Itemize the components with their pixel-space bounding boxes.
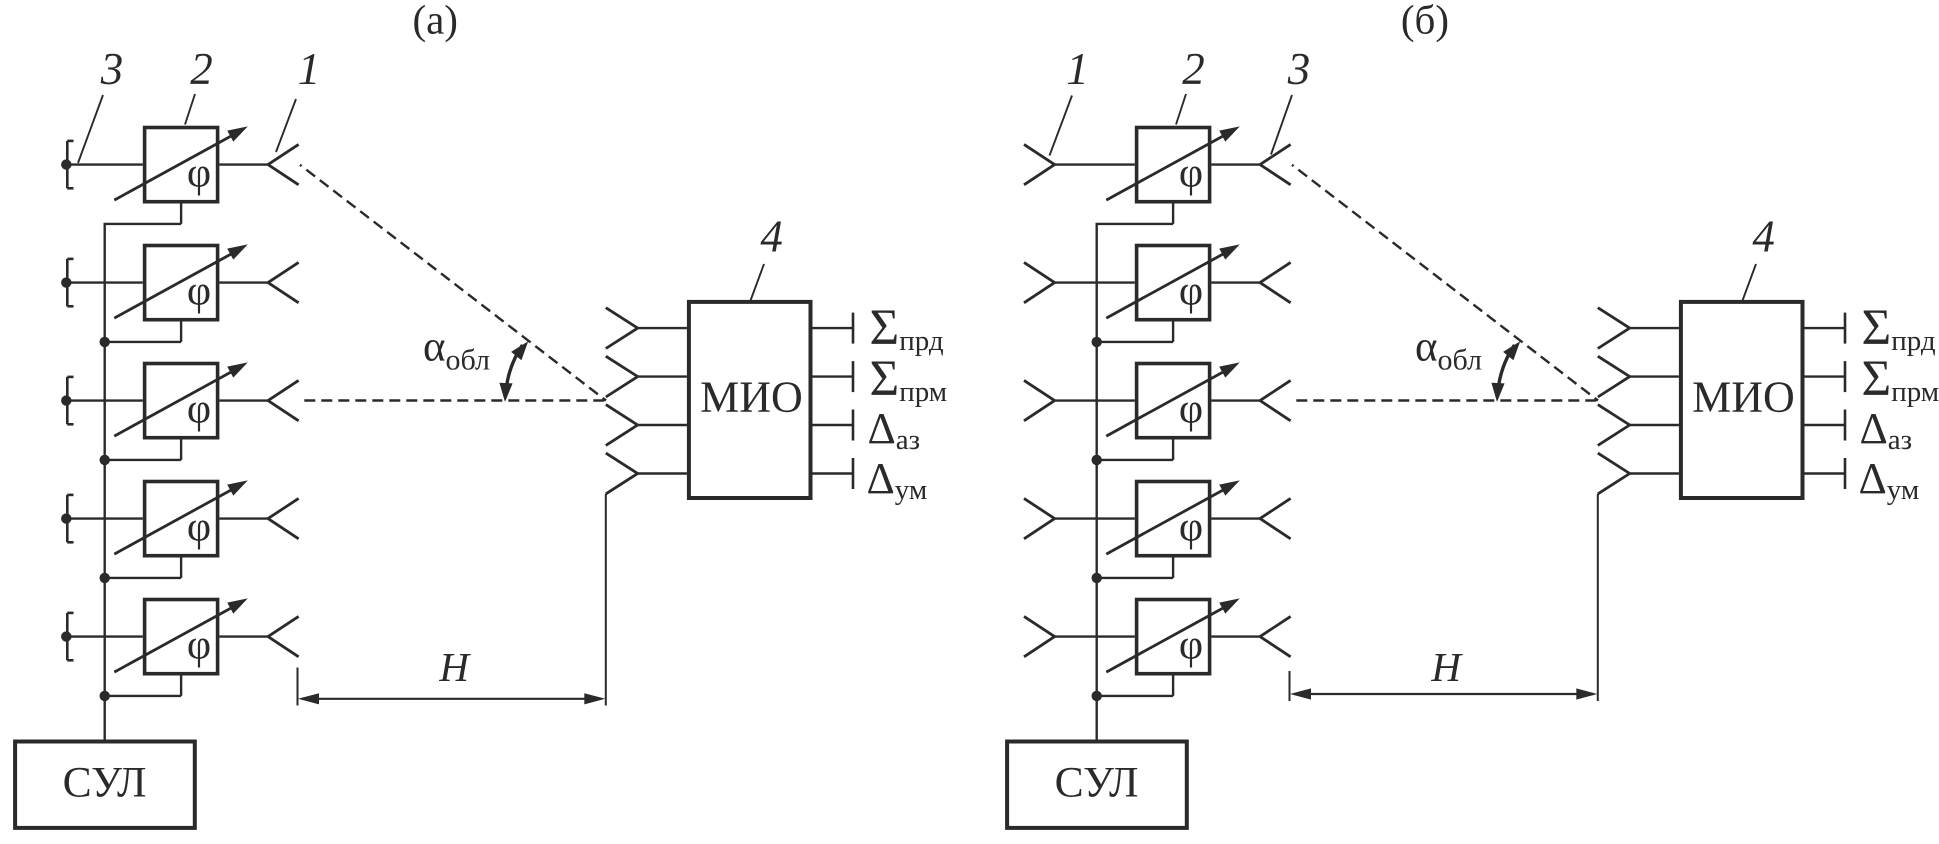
wire feed 3 to MIO (а) xyxy=(638,424,687,426)
output port 2 wire (а) xyxy=(813,361,854,392)
svg-text:1: 1 xyxy=(1066,44,1089,94)
callout label 4 (б) xyxy=(1752,212,1775,262)
dashed ray boresight (б) xyxy=(1296,399,1598,401)
leader line for label 4 (а) xyxy=(751,264,765,301)
title (a) xyxy=(412,0,458,43)
antenna 1 (row 3, б) xyxy=(1024,380,1055,420)
title (b) xyxy=(1401,0,1449,43)
feed horn 4 (б) xyxy=(1598,453,1630,494)
MIO label (а) xyxy=(700,373,803,422)
svg-text:φ: φ xyxy=(1179,622,1203,668)
bus junction row 2 (а) xyxy=(100,337,110,347)
callout label 1 (б) xyxy=(1066,44,1089,94)
phase shifter 2 box row 2 (а) xyxy=(145,246,218,320)
terminal 3 (row 2, а) xyxy=(61,259,73,306)
wire antenna to phase shifter row 3 (б) xyxy=(1055,399,1135,401)
output label Δаз (а) xyxy=(868,404,921,456)
SUL label (а) xyxy=(63,759,147,807)
terminal 3 (row 3, а) xyxy=(61,377,73,424)
output label Σпрд (а) xyxy=(870,300,944,357)
phase shifter variable arrow row 5 (а) xyxy=(114,598,248,672)
dashed ray upper (а) xyxy=(300,165,606,401)
wire terminal to phase shifter row 3 (а) xyxy=(66,399,143,401)
phase shifter variable arrow row 2 (а) xyxy=(114,244,248,318)
phi label row 2 (б) xyxy=(1179,268,1203,314)
antenna 1 (row 2, б) xyxy=(1024,262,1055,302)
antenna radiator row 1 (б) xyxy=(1260,144,1291,184)
phase shifter 2 box row 4 (а) xyxy=(145,482,218,556)
svg-text:φ: φ xyxy=(1179,386,1203,432)
wire phase shifter to antenna row 1 (б) xyxy=(1211,163,1260,165)
svg-text:(б): (б) xyxy=(1401,0,1449,43)
output port 4 wire (б) xyxy=(1805,458,1846,489)
svg-text:1: 1 xyxy=(298,44,321,94)
svg-text:φ: φ xyxy=(187,150,211,196)
callout label 1 (а) xyxy=(298,44,321,94)
wire terminal to phase shifter row 1 (а) xyxy=(66,163,143,165)
bus junction row 2 (б) xyxy=(1092,337,1102,347)
wire feed 3 to MIO (б) xyxy=(1630,424,1679,426)
leader line for label 2 (б) xyxy=(1176,94,1186,125)
control pin wire row 1 (а) xyxy=(104,202,182,224)
wire phase shifter to antenna row 1 (а) xyxy=(219,163,268,165)
svg-text:φ: φ xyxy=(1179,150,1203,196)
leader line for label 1 (а) xyxy=(276,99,296,152)
phase shifter variable arrow row 3 (а) xyxy=(114,362,248,436)
antenna radiator row 4 (б) xyxy=(1260,498,1291,538)
wire terminal to phase shifter row 5 (а) xyxy=(66,635,143,637)
output port 1 wire (б) xyxy=(1805,313,1846,344)
wire feed 2 to MIO (а) xyxy=(638,375,687,377)
callout label 4 (а) xyxy=(760,212,783,262)
control pin wire row 4 (а) xyxy=(104,556,182,578)
bus junction row 4 (б) xyxy=(1092,573,1102,583)
leader line for label 1 (б) xyxy=(1050,96,1073,156)
beamformer MIO box (б) xyxy=(1681,302,1803,498)
dashed ray upper (б) xyxy=(1292,165,1598,401)
dimension arrow H (б) xyxy=(1290,688,1597,699)
antenna radiator row 4 (а) xyxy=(268,498,299,538)
feed horn 3 (а) xyxy=(606,405,638,446)
output label Δум (б) xyxy=(1859,454,1920,506)
wire antenna to phase shifter row 2 (б) xyxy=(1055,281,1135,283)
antenna 1 (row 4, б) xyxy=(1024,498,1055,538)
dimension label H (а) xyxy=(438,644,471,690)
phase shifter 2 box row 5 (а) xyxy=(145,600,218,674)
svg-text:φ: φ xyxy=(1179,268,1203,314)
svg-text:φ: φ xyxy=(187,622,211,668)
dimension label H (б) xyxy=(1430,644,1463,690)
antenna radiator row 2 (б) xyxy=(1260,262,1291,302)
angle arc alpha (б) xyxy=(1491,341,1520,402)
phase shifter 2 box row 3 (а) xyxy=(145,364,218,438)
terminal 3 (row 5, а) xyxy=(61,613,73,660)
svg-text:H: H xyxy=(1430,644,1463,690)
feed horn 3 (б) xyxy=(1598,405,1630,446)
bus junction row 3 (а) xyxy=(100,455,110,465)
svg-text:φ: φ xyxy=(187,386,211,432)
phi label row 4 (б) xyxy=(1179,504,1203,550)
svg-text:МИО: МИО xyxy=(700,373,803,422)
phase shifter variable arrow row 1 (а) xyxy=(114,126,248,200)
svg-text:4: 4 xyxy=(760,212,783,262)
output label Σпрм (а) xyxy=(870,351,948,408)
phi label row 4 (а) xyxy=(187,504,211,550)
callout label 2 (а) xyxy=(190,44,213,94)
control pin wire row 5 (а) xyxy=(104,674,182,696)
wire phase shifter to antenna row 4 (б) xyxy=(1211,517,1260,519)
SUL label (б) xyxy=(1055,759,1139,807)
wire antenna to phase shifter row 5 (б) xyxy=(1055,635,1135,637)
phi label row 1 (а) xyxy=(187,150,211,196)
focal plane line (а) xyxy=(605,494,607,706)
leader line for label 3 (б) xyxy=(1271,95,1292,155)
control pin wire row 3 (а) xyxy=(104,438,182,460)
svg-text:3: 3 xyxy=(1287,44,1311,94)
wire feed 4 to MIO (а) xyxy=(638,472,687,474)
feed horn 4 (а) xyxy=(606,453,638,494)
leader line for label 3 (а) xyxy=(78,95,103,163)
output port 3 wire (а) xyxy=(813,410,854,441)
antenna radiator row 3 (б) xyxy=(1260,380,1291,420)
output port 4 wire (а) xyxy=(813,458,854,489)
wire feed 4 to MIO (б) xyxy=(1630,472,1679,474)
control bus (б) xyxy=(1095,224,1097,741)
wire terminal to phase shifter row 4 (а) xyxy=(66,517,143,519)
angle label alpha_obl (б) xyxy=(1415,324,1482,377)
control pin wire row 2 (а) xyxy=(104,320,182,342)
control pin wire row 4 (б) xyxy=(1096,556,1174,578)
svg-text:СУЛ: СУЛ xyxy=(1055,759,1139,807)
bus junction row 5 (б) xyxy=(1092,691,1102,701)
control unit SUL box (б) xyxy=(1007,742,1187,828)
antenna radiator row 2 (а) xyxy=(268,262,299,302)
svg-text:МИО: МИО xyxy=(1692,373,1795,422)
wire feed 1 to MIO (а) xyxy=(638,327,687,329)
phase shifter variable arrow row 2 (б) xyxy=(1106,244,1240,318)
output label Δаз (б) xyxy=(1860,404,1913,456)
phase shifter variable arrow row 3 (б) xyxy=(1106,362,1240,436)
phase shifter 2 box row 1 (а) xyxy=(145,128,218,202)
output port 3 wire (б) xyxy=(1805,410,1846,441)
antenna 1 (row 1, б) xyxy=(1024,144,1055,184)
phase shifter variable arrow row 1 (б) xyxy=(1106,126,1240,200)
svg-text:СУЛ: СУЛ xyxy=(63,759,147,807)
feed horn 2 (б) xyxy=(1598,356,1630,397)
output label Δум (а) xyxy=(867,454,928,506)
callout label 3 (б) xyxy=(1287,44,1311,94)
control bus (а) xyxy=(103,224,105,741)
phi label row 3 (б) xyxy=(1179,386,1203,432)
feed horn 2 (а) xyxy=(606,356,638,397)
phi label row 2 (а) xyxy=(187,268,211,314)
wire terminal to phase shifter row 2 (а) xyxy=(66,281,143,283)
wire phase shifter to antenna row 2 (б) xyxy=(1211,281,1260,283)
bus junction row 4 (а) xyxy=(100,573,110,583)
antenna radiator row 1 (а) xyxy=(268,144,299,184)
bus junction row 3 (б) xyxy=(1092,455,1102,465)
antenna 1 (row 5, б) xyxy=(1024,616,1055,656)
focal plane line (б) xyxy=(1597,494,1599,701)
wire phase shifter to antenna row 3 (а) xyxy=(219,399,268,401)
output port 2 wire (б) xyxy=(1805,361,1846,392)
wire phase shifter to antenna row 3 (б) xyxy=(1211,399,1260,401)
leader line for label 2 (а) xyxy=(185,94,195,125)
svg-text:H: H xyxy=(438,644,471,690)
svg-text:φ: φ xyxy=(187,504,211,550)
control pin wire row 3 (б) xyxy=(1096,438,1174,460)
dimension arrow H (а) xyxy=(298,693,605,704)
phi label row 1 (б) xyxy=(1179,150,1203,196)
wire phase shifter to antenna row 5 (б) xyxy=(1211,635,1260,637)
terminal 3 (row 4, а) xyxy=(61,495,73,542)
svg-text:2: 2 xyxy=(1182,44,1205,94)
svg-text:3: 3 xyxy=(100,44,124,94)
wire feed 1 to MIO (б) xyxy=(1630,327,1679,329)
control pin wire row 5 (б) xyxy=(1096,674,1174,696)
callout label 3 (а) xyxy=(100,44,124,94)
phase shifter variable arrow row 4 (а) xyxy=(114,480,248,554)
dimension extension tick (б) xyxy=(1289,671,1291,701)
beamformer MIO box (а) xyxy=(689,302,811,498)
phase shifter 2 box row 1 (б) xyxy=(1137,128,1210,202)
output port 1 wire (а) xyxy=(813,313,854,344)
svg-text:φ: φ xyxy=(1179,504,1203,550)
wire phase shifter to antenna row 4 (а) xyxy=(219,517,268,519)
feed horn 1 (б) xyxy=(1598,308,1630,349)
wire feed 2 to MIO (б) xyxy=(1630,375,1679,377)
output label Σпрм (б) xyxy=(1862,351,1939,408)
svg-text:2: 2 xyxy=(190,44,213,94)
dimension extension tick (а) xyxy=(297,668,299,706)
phase shifter 2 box row 3 (б) xyxy=(1137,364,1210,438)
phase shifter variable arrow row 4 (б) xyxy=(1106,480,1240,554)
phi label row 5 (а) xyxy=(187,622,211,668)
antenna radiator row 5 (а) xyxy=(268,616,299,656)
phase shifter variable arrow row 5 (б) xyxy=(1106,598,1240,672)
control pin wire row 1 (б) xyxy=(1096,202,1174,224)
wire antenna to phase shifter row 1 (б) xyxy=(1055,163,1135,165)
MIO label (б) xyxy=(1692,373,1795,422)
phase shifter 2 box row 5 (б) xyxy=(1137,600,1210,674)
phi label row 3 (а) xyxy=(187,386,211,432)
angle label alpha_obl (а) xyxy=(423,324,490,377)
control unit SUL box (а) xyxy=(15,742,195,828)
output label Σпрд (б) xyxy=(1862,300,1936,357)
leader line for label 4 (б) xyxy=(1743,264,1757,301)
control pin wire row 2 (б) xyxy=(1096,320,1174,342)
callout label 2 (б) xyxy=(1182,44,1205,94)
svg-text:φ: φ xyxy=(187,268,211,314)
wire antenna to phase shifter row 4 (б) xyxy=(1055,517,1135,519)
svg-text:(а): (а) xyxy=(412,0,458,43)
bus junction row 5 (а) xyxy=(100,691,110,701)
phase shifter 2 box row 2 (б) xyxy=(1137,246,1210,320)
antenna radiator row 5 (б) xyxy=(1260,616,1291,656)
angle arc alpha (а) xyxy=(499,341,528,402)
phi label row 5 (б) xyxy=(1179,622,1203,668)
dashed ray boresight (а) xyxy=(304,399,606,401)
svg-text:4: 4 xyxy=(1752,212,1775,262)
wire phase shifter to antenna row 5 (а) xyxy=(219,635,268,637)
terminal 3 (row 1, а) xyxy=(61,141,73,188)
phase shifter 2 box row 4 (б) xyxy=(1137,482,1210,556)
feed horn 1 (а) xyxy=(606,308,638,349)
antenna radiator row 3 (а) xyxy=(268,380,299,420)
wire phase shifter to antenna row 2 (а) xyxy=(219,281,268,283)
